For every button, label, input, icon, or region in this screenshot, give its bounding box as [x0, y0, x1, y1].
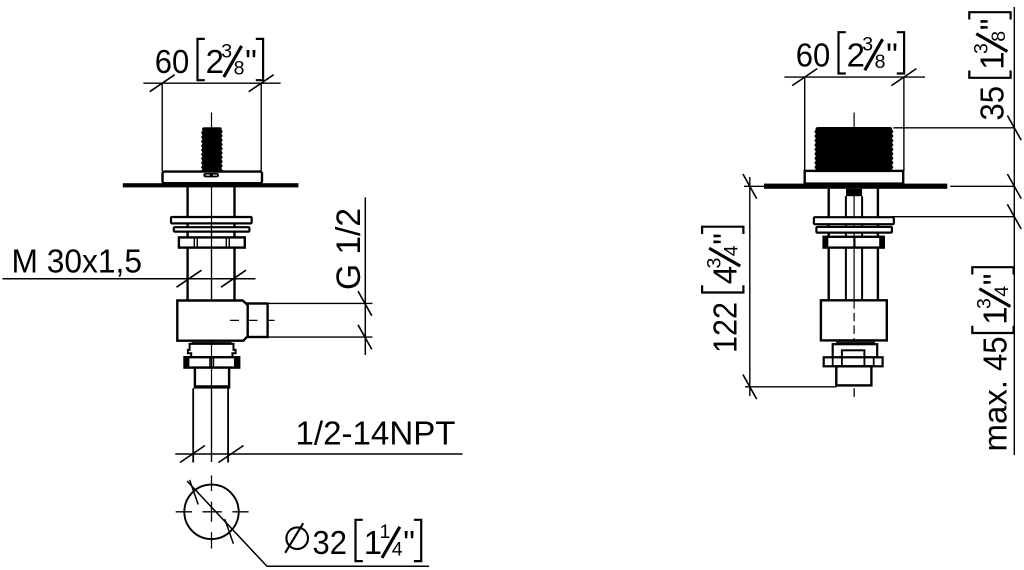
cup inner box: [842, 350, 865, 357]
cup right: [833, 344, 878, 357]
tail pipe left: [192, 388, 194, 462]
bottom extension line: [745, 386, 837, 388]
wing nut right: [824, 357, 883, 366]
threaded stud: [200, 127, 223, 171]
centerline through lower stack: [211, 340, 213, 462]
plate extension right: [950, 185, 1014, 187]
tick M30 right: [221, 270, 246, 287]
inner stud block: [846, 189, 862, 196]
svg-text:4: 4: [392, 538, 403, 560]
o-ring band: [192, 341, 232, 344]
threaded block: [814, 127, 893, 171]
svg-text:": ": [974, 18, 1011, 30]
plate right: [764, 184, 947, 189]
svg-text:3: 3: [974, 298, 996, 309]
centerline dash through body: [853, 300, 855, 398]
diag tick 1: [190, 480, 199, 505]
leader line M30: [3, 278, 256, 280]
tick left: [150, 75, 175, 92]
tick 122 bottom: [743, 375, 757, 400]
dimension label 60 right: [796, 32, 904, 73]
svg-text:3: 3: [971, 43, 993, 54]
tail pipe right: [227, 388, 229, 462]
upper nut: [179, 237, 245, 247]
tick NPT right: [219, 446, 244, 463]
svg-text:G 1/2: G 1/2: [330, 208, 368, 290]
body right: [821, 300, 887, 340]
extension line outlet top: [250, 302, 372, 304]
svg-text:": ": [403, 524, 415, 561]
tick left: [792, 69, 817, 86]
o-ring right: [836, 341, 875, 344]
tick right: [249, 75, 274, 92]
svg-text:3: 3: [704, 258, 726, 269]
outlet dash centerline: [230, 319, 275, 321]
mounting plate: [123, 183, 299, 187]
svg-text:1: 1: [380, 521, 391, 543]
label max. 45 [1 3/4"] rotated: [972, 267, 1013, 451]
G12 underline: [364, 197, 366, 355]
side outlet: [248, 304, 268, 338]
tick G12 top: [358, 291, 372, 316]
bottom circle: [184, 485, 238, 539]
tube inner right: [861, 196, 863, 300]
circle centerline horizontal: [176, 511, 249, 513]
label 122 [4 3/4"] rotated: [702, 227, 743, 353]
tick G12 bottom: [358, 325, 372, 350]
tube outer right: [877, 189, 879, 300]
leader NPT: [175, 453, 462, 455]
ring 1 right: [814, 217, 894, 224]
dimension label 60 [2 3/8"] left: [155, 39, 263, 80]
nut right: [824, 237, 884, 248]
svg-text:max.: max.: [977, 380, 1014, 452]
dimension line 60 left: [143, 82, 280, 84]
plate extension left: [744, 185, 764, 187]
svg-text:32: 32: [313, 524, 348, 561]
svg-text:45: 45: [977, 337, 1014, 372]
label dia 32: [285, 520, 421, 561]
tick max45 bottom: [1007, 204, 1021, 229]
tube wall right: [233, 187, 235, 300]
svg-text:4: 4: [721, 245, 743, 256]
svg-text:8: 8: [988, 31, 1010, 42]
tick NPT left: [180, 446, 205, 463]
svg-text:1/2-14NPT: 1/2-14NPT: [296, 415, 456, 452]
lower box right: [836, 366, 871, 385]
lower box: [195, 368, 229, 388]
flange right: [805, 171, 904, 184]
right dimension line: [1013, 7, 1015, 455]
tick 35 bottom: [1007, 174, 1021, 199]
tick right: [891, 69, 916, 86]
ring ext line: [892, 216, 1015, 218]
svg-text:": ": [706, 233, 743, 245]
tick 35 top: [1007, 116, 1021, 141]
tick 122 top: [743, 174, 757, 199]
122 dimension line: [749, 177, 751, 396]
extension line right: [260, 83, 262, 171]
extension line right: [903, 77, 905, 171]
circle centerline vertical: [211, 476, 213, 549]
ring 1: [171, 217, 252, 223]
tick M30 left: [177, 270, 202, 287]
svg-text:M 30x1,5: M 30x1,5: [12, 243, 143, 280]
extension line outlet bottom: [250, 336, 372, 338]
dimension line 60 right: [784, 76, 925, 78]
diag tick 2: [225, 519, 234, 544]
svg-text:122: 122: [706, 302, 743, 353]
label G 1/2 rotated: [330, 208, 368, 290]
valve body: [177, 301, 247, 341]
tube inner left: [845, 196, 847, 300]
centerline re-draw over rings: [211, 213, 213, 302]
svg-text:": ": [977, 273, 1014, 285]
extension line left: [804, 77, 806, 171]
diameter leader: [187, 481, 429, 566]
svg-text:35: 35: [974, 86, 1011, 121]
centerline right figure: [853, 113, 855, 301]
centerline vertical left figure: [211, 113, 213, 463]
tube outer left: [828, 189, 830, 300]
cup piece: [188, 344, 236, 357]
screw slot: [203, 173, 219, 177]
flange: [163, 172, 263, 184]
label 35 [1 3/8"] rotated: [969, 12, 1010, 120]
tube wall left: [186, 187, 188, 300]
extension line left: [161, 83, 163, 171]
ring 2: [174, 227, 250, 231]
35 extension line: [894, 127, 1015, 129]
svg-text:4: 4: [991, 286, 1013, 297]
lower nut: [185, 357, 240, 367]
ring 2 right: [816, 227, 892, 233]
